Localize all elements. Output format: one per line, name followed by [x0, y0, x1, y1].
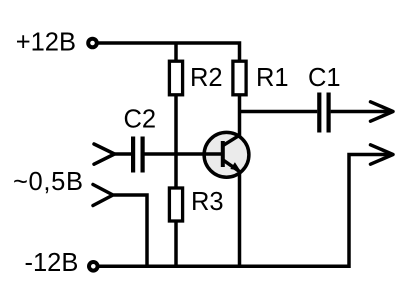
svg-text:R3: R3: [191, 188, 224, 216]
svg-text:R1: R1: [256, 64, 289, 92]
svg-text:R2: R2: [190, 64, 223, 92]
svg-text:C1: C1: [308, 64, 341, 92]
svg-text:~0,5В: ~0,5В: [13, 168, 83, 196]
svg-text:C2: C2: [124, 106, 157, 134]
svg-text:-12В: -12В: [25, 249, 79, 277]
svg-text:+12В: +12В: [16, 29, 76, 57]
